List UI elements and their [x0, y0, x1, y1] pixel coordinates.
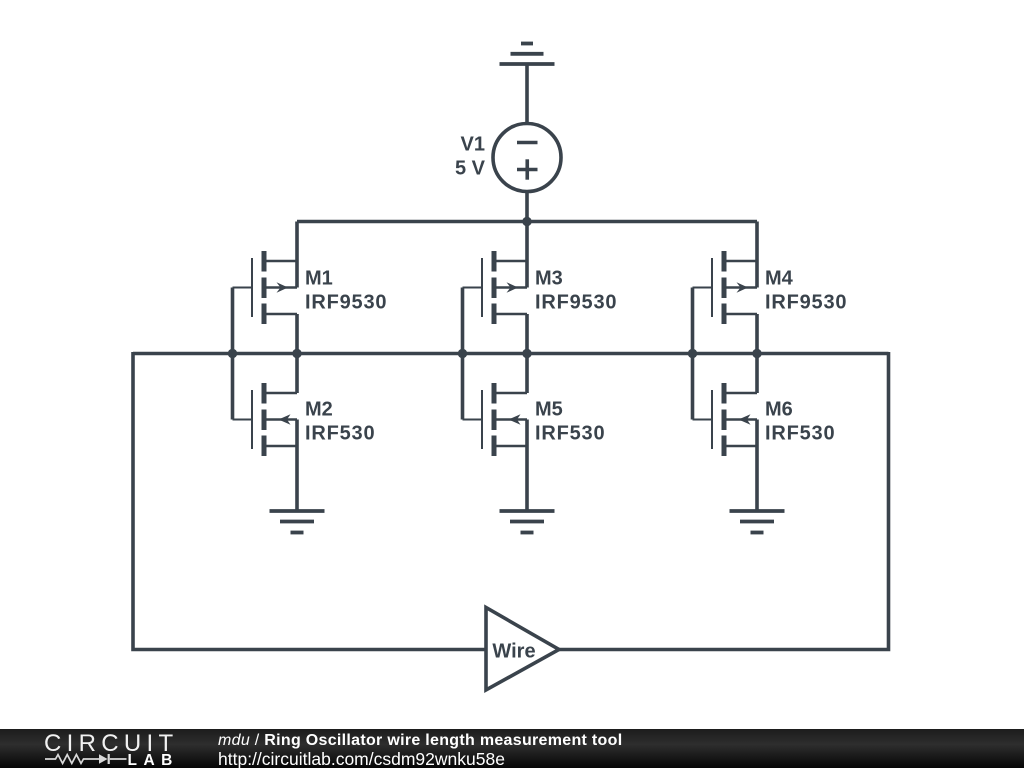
svg-text:M6: M6 [765, 399, 793, 421]
svg-text:V1: V1 [461, 134, 485, 156]
ground GND top (power return above V1) [500, 44, 555, 65]
wire gate bus stage 3 [691, 288, 695, 420]
svg-text:M2: M2 [305, 399, 333, 421]
transistor M2 (IRF530) NMOS [233, 354, 298, 512]
logo diode symbol [99, 754, 108, 764]
transistor M1 (IRF9530) PMOS [233, 222, 298, 354]
ground GND1 [270, 511, 325, 533]
svg-text:M5: M5 [535, 399, 563, 421]
wire VDD rail [297, 220, 757, 224]
voltage source V1 5V [493, 124, 561, 192]
wire middle output rail [133, 352, 889, 356]
svg-text:IRF530: IRF530 [765, 423, 835, 445]
transistor M3 (IRF9530) PMOS [463, 222, 528, 354]
ground GND2 [500, 511, 555, 533]
transistor M5 (IRF530) NMOS [463, 354, 528, 512]
svg-text:IRF9530: IRF9530 [535, 292, 617, 314]
node gate input stage 3 [688, 349, 697, 358]
transistor M6 (IRF530) NMOS [693, 354, 758, 512]
wire top ground to V1 [525, 64, 529, 124]
ground GND3 [730, 511, 785, 533]
svg-text:M4: M4 [765, 268, 794, 290]
wire gate bus stage 1 [231, 288, 235, 420]
svg-text:IRF530: IRF530 [305, 423, 375, 445]
svg-text:Wire: Wire [492, 641, 535, 663]
wire V1 to VDD rail [525, 192, 529, 222]
footer title text [218, 732, 622, 750]
buffer Wire (wire length element) [486, 608, 559, 691]
node VDD junction [522, 217, 531, 226]
node output stage 3 [752, 349, 761, 358]
node gate input stage 1 [228, 349, 237, 358]
svg-text:IRF9530: IRF9530 [765, 292, 847, 314]
svg-text:M3: M3 [535, 268, 563, 290]
footer url text [218, 749, 505, 768]
logo resistor symbol [45, 755, 99, 764]
svg-text:IRF9530: IRF9530 [305, 292, 387, 314]
wire left feedback drop and bottom left segment [133, 352, 486, 650]
wire right feedback drop and bottom right segment [559, 352, 889, 650]
node output stage 1 [292, 349, 301, 358]
svg-text:LAB: LAB [128, 752, 179, 768]
footer CircuitLab bar [0, 729, 1024, 768]
transistor M4 (IRF9530) PMOS [693, 222, 758, 354]
svg-text:M1: M1 [305, 268, 333, 290]
wire gate bus stage 2 [461, 288, 465, 420]
svg-text:5 V: 5 V [455, 158, 486, 180]
svg-text:IRF530: IRF530 [535, 423, 605, 445]
node output stage 2 [522, 349, 531, 358]
node gate input stage 2 [458, 349, 467, 358]
